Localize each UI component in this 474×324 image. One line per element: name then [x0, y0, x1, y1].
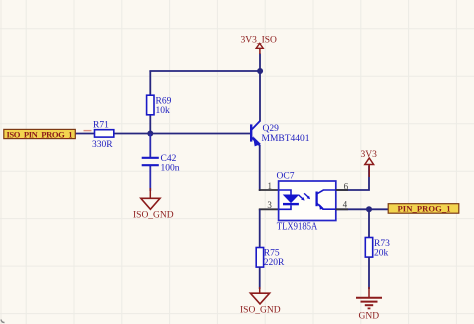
- svg-text:3: 3: [267, 200, 272, 210]
- LED cathode bar: [283, 203, 299, 205]
- junction dot left: [147, 131, 153, 137]
- svg-text:ISO_PIN_PROG_1: ISO_PIN_PROG_1: [7, 129, 73, 139]
- svg-text:ISO_GND: ISO_GND: [240, 306, 281, 316]
- svg-text:R71: R71: [93, 120, 109, 130]
- svg-text:ISO_GND: ISO_GND: [133, 211, 174, 221]
- pin 6 stub: [336, 189, 348, 191]
- light arrow 2: [304, 193, 308, 197]
- pin 4 stub: [336, 208, 348, 210]
- svg-text:R73: R73: [374, 239, 390, 249]
- light arrow 1: [299, 195, 303, 199]
- resistor R69: [147, 95, 172, 116]
- svg-text:20k: 20k: [374, 248, 389, 258]
- port ISO_PIN_PROG_1: [4, 129, 76, 139]
- svg-text:10k: 10k: [156, 106, 171, 116]
- wire: R69 top to rail: [149, 71, 151, 95]
- svg-text:220R: 220R: [264, 258, 285, 268]
- svg-text:R75: R75: [264, 249, 280, 259]
- svg-text:4: 4: [343, 199, 348, 209]
- LED anode lead: [279, 190, 291, 195]
- wire: junction down to C42: [149, 134, 151, 158]
- LED triangle: [284, 195, 298, 202]
- LED cathode lead: [279, 205, 291, 209]
- power 3V3_ISO: [241, 36, 278, 55]
- junction dot top: [257, 68, 263, 74]
- wire: pin6 to 3V3: [336, 166, 369, 191]
- junction dot right: [366, 206, 372, 212]
- svg-text:C42: C42: [161, 154, 177, 164]
- wire: port to R71: [76, 133, 95, 135]
- wire: top rail horizontal: [149, 70, 261, 72]
- resistor R75: [256, 248, 285, 269]
- svg-text:TLX9185A: TLX9185A: [277, 222, 318, 233]
- resistor R73: [365, 238, 390, 259]
- svg-text:100n: 100n: [161, 164, 180, 174]
- wire: pin4 to port: [336, 208, 389, 210]
- power 3V3: [361, 150, 378, 177]
- capacitor C42: [142, 154, 180, 174]
- wire: pin3 down to R75: [259, 209, 261, 247]
- wire: pin1 horizontal: [259, 189, 279, 191]
- svg-text:MMBT4401: MMBT4401: [262, 134, 310, 144]
- wire: junction down to R73: [368, 209, 370, 237]
- svg-text:330R: 330R: [92, 140, 113, 150]
- wire: emitter vertical to pin1: [259, 146, 261, 191]
- opto-coupler OC7: [267, 172, 348, 233]
- wire: collector vertical: [259, 54, 261, 122]
- svg-text:GND: GND: [359, 312, 380, 322]
- edge mark bottom-left: [1, 320, 5, 323]
- svg-text:Q29: Q29: [263, 124, 280, 134]
- svg-text:PIN_PROG_1: PIN_PROG_1: [398, 204, 451, 214]
- port PIN_PROG_1: [388, 204, 459, 214]
- ground ISO_GND (left): [133, 188, 174, 221]
- wire: C42 bottom down: [149, 166, 151, 191]
- svg-text:OC7: OC7: [277, 172, 295, 182]
- ground ISO_GND (mid): [240, 287, 281, 316]
- wire: R75 to ISO_GND: [259, 267, 261, 289]
- wire: R71 to Q29 base: [114, 133, 250, 135]
- resistor R71: [92, 120, 114, 150]
- ground GND (earth): [356, 287, 382, 322]
- svg-text:R69: R69: [156, 97, 172, 107]
- transistor Q29: [251, 121, 310, 146]
- wire: junction up to R69: [149, 115, 151, 134]
- wire: pin3 horizontal: [259, 208, 279, 210]
- wire: R73 to GND: [368, 257, 370, 289]
- sheet left edge: [0, 0, 2, 324]
- ERC marker red tick: [84, 130, 92, 132]
- svg-text:1: 1: [268, 181, 273, 191]
- photo-transistor: [315, 192, 317, 207]
